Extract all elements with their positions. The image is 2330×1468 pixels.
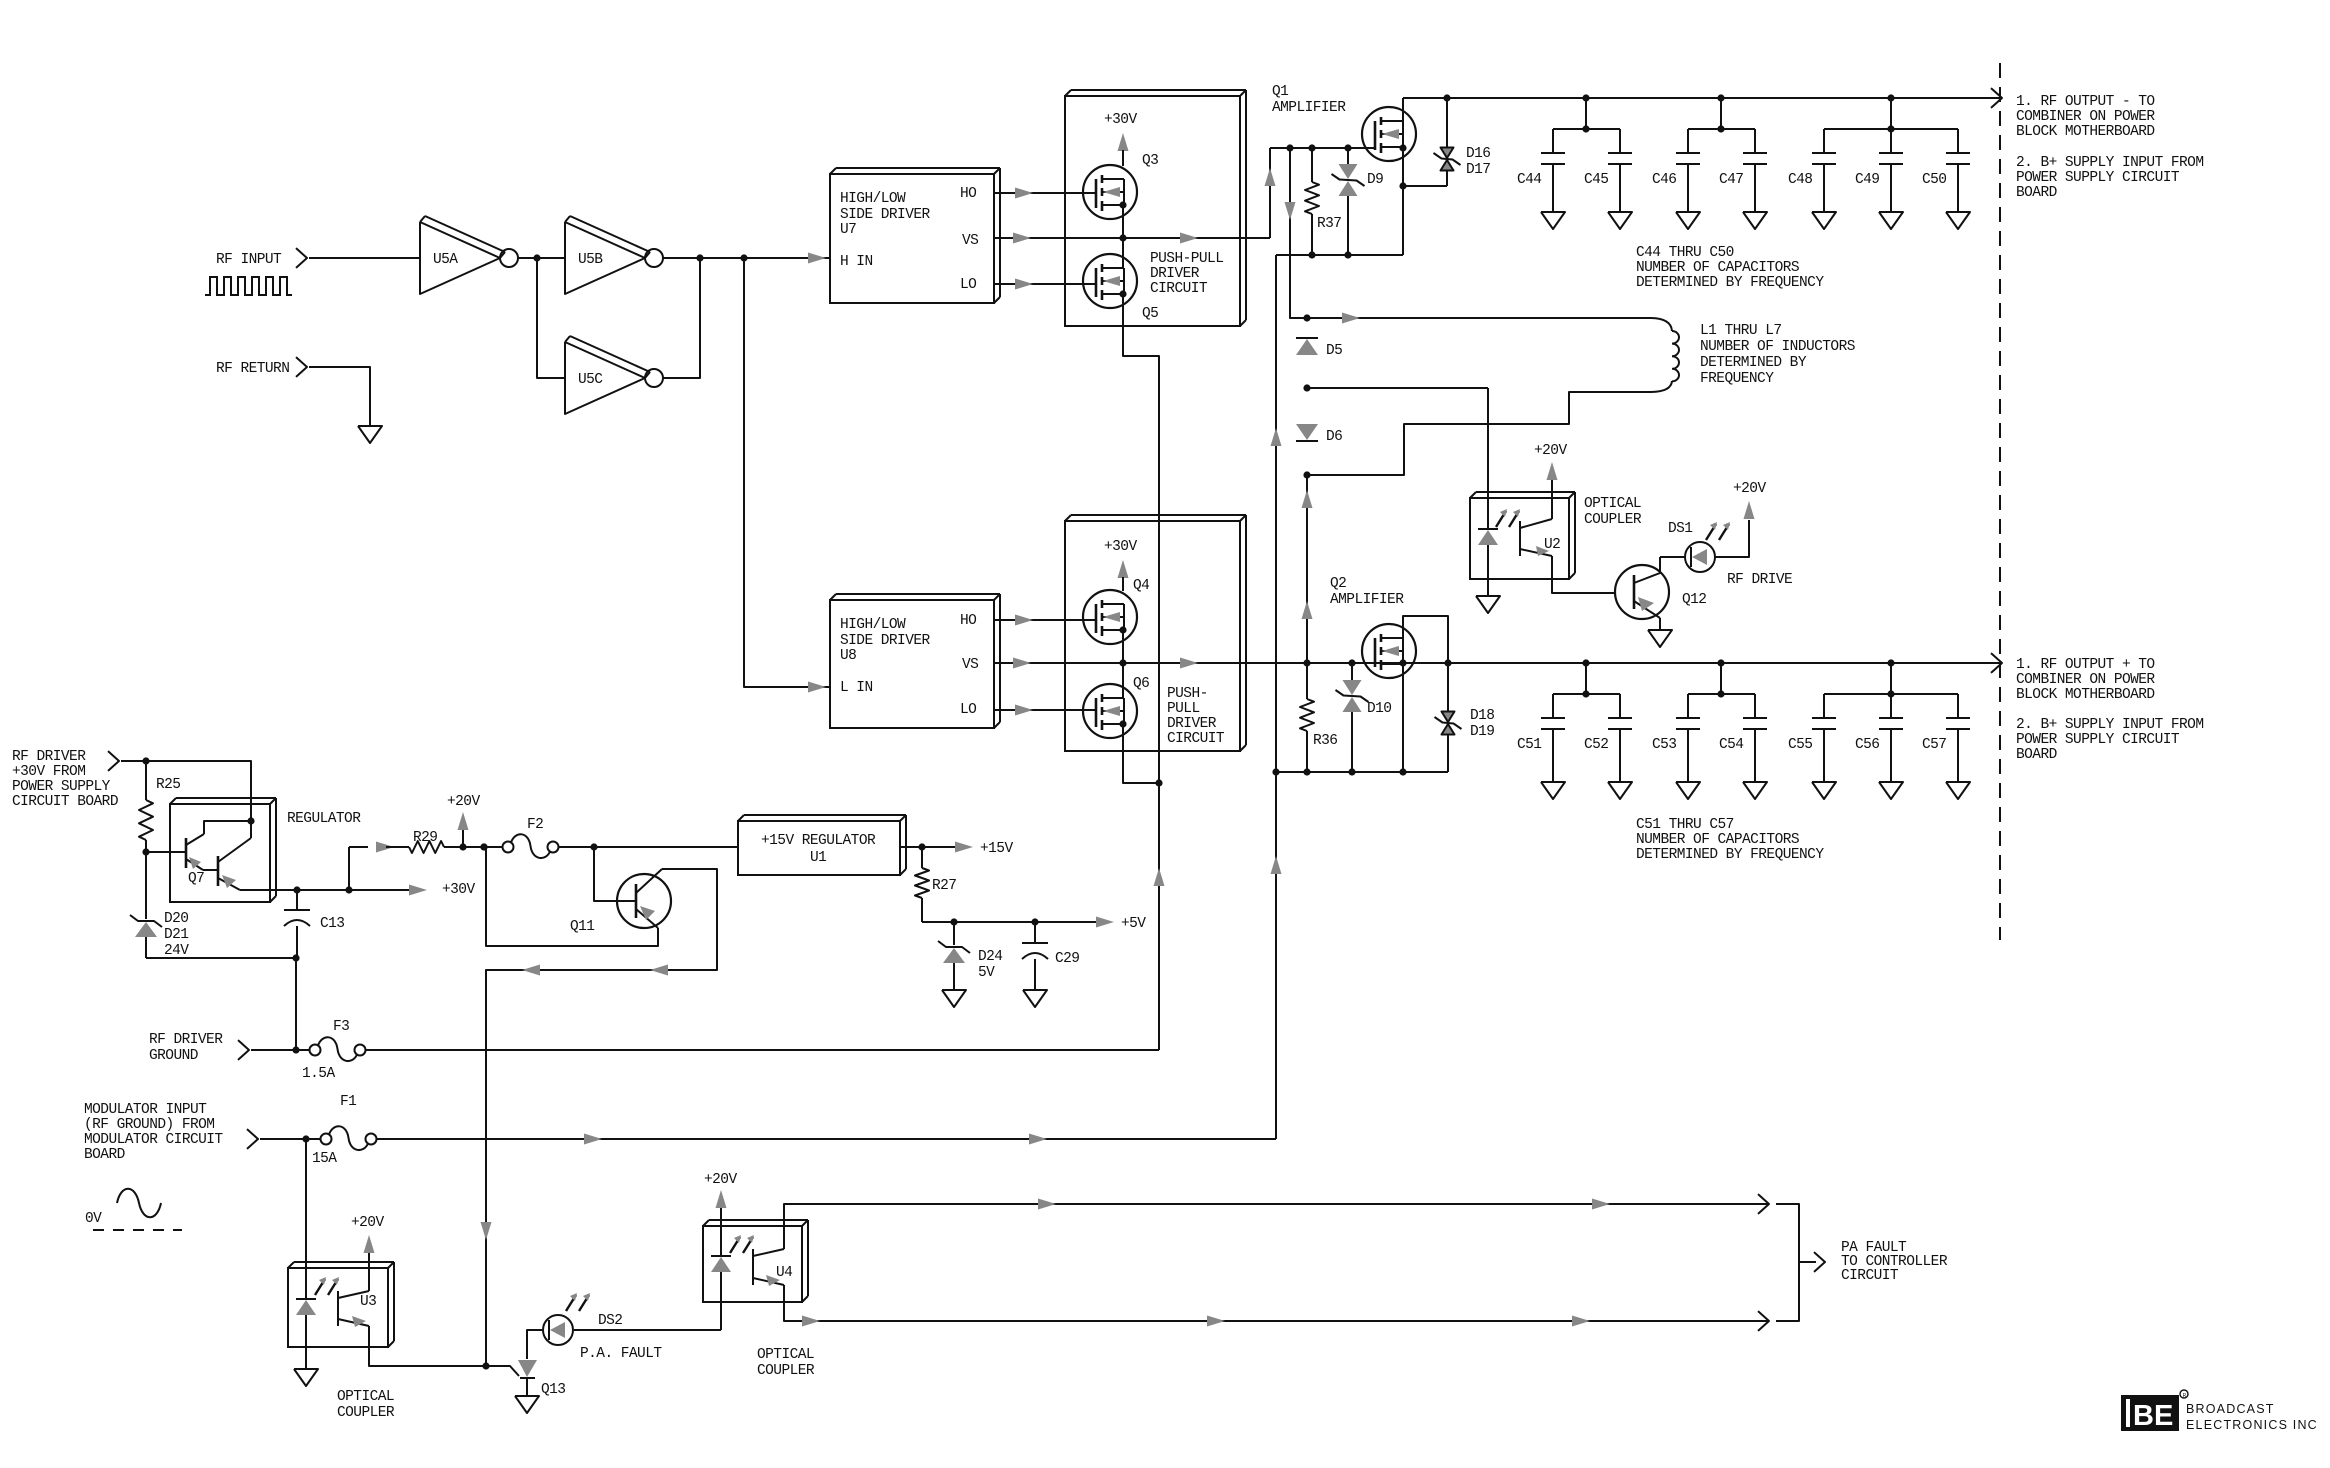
svg-text:H IN: H IN — [840, 254, 873, 270]
svg-text:D19: D19 — [1470, 724, 1494, 740]
svg-text:VS: VS — [962, 233, 978, 249]
wire — [251, 1049, 310, 1051]
svg-text:NUMBER OF CAPACITORS: NUMBER OF CAPACITORS — [1636, 260, 1799, 276]
wire Q11 collector loop — [486, 869, 717, 1366]
push-pull 2 text — [1167, 686, 1225, 747]
wire chain down — [1306, 475, 1308, 663]
R25 label — [156, 777, 180, 793]
Q1 label — [1272, 84, 1346, 116]
svg-text:AMPLIFIER: AMPLIFIER — [1272, 100, 1346, 116]
wire Q1 drain — [1402, 98, 1404, 121]
DS2 light rays — [566, 1293, 590, 1311]
svg-text:U7: U7 — [840, 222, 856, 238]
diode D5 — [1296, 338, 1318, 355]
wire DS1 +20V — [1715, 501, 1755, 557]
svg-text:1.5A: 1.5A — [302, 1066, 335, 1082]
U7 pin LO — [960, 277, 976, 293]
PA fault bracket — [1776, 1204, 1816, 1321]
node junction — [1031, 918, 1038, 925]
svg-text:REGULATOR: REGULATOR — [287, 811, 361, 827]
node junction — [142, 848, 149, 855]
svg-text:+5V: +5V — [1121, 916, 1146, 932]
R27 label — [932, 878, 956, 894]
svg-text:D18: D18 — [1470, 708, 1494, 724]
C57 label — [1922, 737, 1946, 753]
wire LO2 arrow — [1015, 705, 1033, 716]
PA FAULT note — [1841, 1240, 1948, 1284]
node junction — [480, 843, 487, 850]
svg-text:C50: C50 — [1922, 172, 1946, 188]
Q6 label — [1133, 676, 1149, 692]
bus output chevron — [1991, 88, 2002, 108]
D9 label — [1367, 172, 1383, 188]
C54 label — [1719, 737, 1743, 753]
U8 pin LO — [960, 702, 976, 718]
node RF INPUT label — [216, 252, 282, 268]
modulator connector — [247, 1129, 258, 1149]
svg-text:C55: C55 — [1788, 737, 1812, 753]
wire loop arrow — [481, 1222, 492, 1240]
wire F2 to U1 — [558, 846, 738, 848]
note B+ supply 2 — [2016, 717, 2203, 763]
svg-text:DRIVER: DRIVER — [1167, 716, 1217, 732]
C47 label — [1719, 172, 1743, 188]
svg-text:R: R — [2183, 1393, 2187, 1399]
node junction — [1344, 144, 1351, 151]
wire +20V arrow — [458, 812, 469, 847]
U8 pin VS — [962, 657, 978, 673]
REGULATOR label — [287, 811, 361, 827]
svg-text:MODULATOR CIRCUIT: MODULATOR CIRCUIT — [84, 1132, 223, 1148]
optocoupler U2 box — [1470, 492, 1575, 579]
svg-text:NUMBER OF INDUCTORS: NUMBER OF INDUCTORS — [1700, 339, 1855, 355]
svg-text:PULL: PULL — [1167, 701, 1200, 717]
bracket chevron — [1814, 1252, 1825, 1272]
svg-text:POWER SUPPLY: POWER SUPPLY — [12, 779, 111, 795]
capacitor C51 — [1541, 694, 1565, 799]
svg-text:RF DRIVE: RF DRIVE — [1727, 572, 1792, 588]
wire loop arrow — [522, 965, 540, 976]
U8 title — [840, 617, 931, 664]
net +20V label — [1534, 443, 1567, 459]
svg-text:1. RF OUTPUT - TO: 1. RF OUTPUT - TO — [2016, 94, 2155, 110]
node junction — [459, 843, 466, 850]
wire chain arrow — [1302, 601, 1313, 619]
node junction — [1399, 182, 1406, 189]
BE logo text — [2186, 1402, 2318, 1432]
transistor Q7 — [146, 821, 297, 890]
svg-text:RF DRIVER: RF DRIVER — [12, 749, 86, 765]
C45 label — [1584, 172, 1608, 188]
wire F3 to driver — [365, 1049, 1159, 1051]
wire fault arrow — [802, 1316, 820, 1327]
wire Q3 source — [1122, 205, 1124, 238]
svg-text:F2: F2 — [527, 817, 543, 833]
transistor Q5 — [1083, 254, 1137, 308]
U2 label — [1544, 537, 1560, 553]
wire bus2 arrow — [1180, 658, 1198, 669]
C29 label — [1055, 951, 1079, 967]
wire HO2 arrow — [1015, 615, 1033, 626]
wire VS arrow — [1013, 233, 1031, 244]
node junction — [480, 843, 487, 850]
fuse F1 — [321, 1126, 377, 1150]
wire Q1 source — [1402, 148, 1404, 186]
node junction — [696, 254, 703, 261]
wire H IN arrow — [808, 253, 826, 264]
node junction — [1717, 659, 1724, 697]
node junction — [1119, 290, 1126, 297]
DS1 label — [1668, 521, 1692, 537]
svg-text:+30V: +30V — [442, 882, 475, 898]
svg-text:R37: R37 — [1317, 216, 1341, 232]
wire VS arrow — [1180, 233, 1198, 244]
RF INPUT connector — [296, 248, 307, 268]
svg-text:SIDE DRIVER: SIDE DRIVER — [840, 207, 931, 223]
node junction — [1308, 144, 1315, 151]
U3 light rays — [315, 1277, 339, 1295]
node VS junction — [1119, 234, 1126, 241]
svg-text:Q11: Q11 — [570, 919, 594, 935]
wire Q5 source to ground line — [1123, 294, 1159, 1050]
svg-text:C45: C45 — [1584, 172, 1608, 188]
node junction — [1887, 659, 1894, 697]
U4 label — [776, 1265, 792, 1281]
net 0V label — [85, 1211, 102, 1227]
wire — [309, 257, 420, 259]
transistor Q6 — [1083, 684, 1137, 738]
svg-text:C13: C13 — [320, 916, 344, 932]
optocoupler U4 box — [703, 1220, 808, 1302]
svg-text:+30V FROM: +30V FROM — [12, 764, 85, 780]
transistor Q3 — [1083, 165, 1137, 219]
svg-text:BOARD: BOARD — [2016, 747, 2057, 763]
wire modulator arrow — [1029, 1134, 1047, 1145]
wire ground line arrow — [1154, 868, 1165, 886]
svg-text:5V: 5V — [978, 965, 995, 981]
Q12 label — [1682, 592, 1706, 608]
U2 ground — [1476, 593, 1500, 613]
regulator Q7 box — [170, 798, 276, 902]
svg-text:DRIVER: DRIVER — [1150, 266, 1200, 282]
wire sub-bus C51 C52 — [1553, 663, 1620, 694]
diode D24 — [938, 922, 970, 990]
node junction — [142, 757, 149, 764]
node junction — [292, 1046, 299, 1053]
svg-text:D5: D5 — [1326, 343, 1342, 359]
wire U5C input — [537, 258, 565, 378]
svg-text:BOARD: BOARD — [2016, 185, 2057, 201]
note RF driver +30V — [12, 749, 118, 810]
U3 coupler label — [337, 1389, 395, 1421]
svg-text:1. RF OUTPUT + TO: 1. RF OUTPUT + TO — [2016, 657, 2155, 673]
svg-text:OPTICAL: OPTICAL — [1584, 496, 1641, 512]
C44 label — [1517, 172, 1541, 188]
svg-text:U5A: U5A — [433, 252, 458, 268]
svg-text:C57: C57 — [1922, 737, 1946, 753]
note B+ supply — [2016, 155, 2203, 201]
svg-text:U3: U3 — [360, 1294, 376, 1310]
wire +5V arrow — [1096, 917, 1114, 928]
svg-text:U5C: U5C — [578, 372, 603, 388]
Q2 label — [1330, 576, 1404, 608]
dashed boundary — [1999, 63, 2001, 940]
svg-text:F3: F3 — [333, 1019, 349, 1035]
node junction — [1348, 768, 1355, 775]
svg-text:D6: D6 — [1326, 429, 1342, 445]
svg-text:+20V: +20V — [1534, 443, 1567, 459]
inductor note — [1700, 323, 1855, 387]
wire HO arrow — [1015, 188, 1033, 199]
svg-text:DETERMINED BY FREQUENCY: DETERMINED BY FREQUENCY — [1636, 847, 1824, 863]
D18 D19 labels — [1470, 708, 1494, 740]
svg-text:L1 THRU L7: L1 THRU L7 — [1700, 323, 1782, 339]
Q11 collector — [636, 869, 662, 893]
U4 +20V arrow — [716, 1190, 727, 1256]
svg-text:NUMBER OF CAPACITORS: NUMBER OF CAPACITORS — [1636, 832, 1799, 848]
node junction — [950, 918, 957, 925]
fuse F2 — [503, 834, 559, 858]
svg-text:C51: C51 — [1517, 737, 1541, 753]
svg-text:C54: C54 — [1719, 737, 1743, 753]
svg-text:2. B+ SUPPLY INPUT FROM: 2. B+ SUPPLY INPUT FROM — [2016, 717, 2203, 733]
svg-text:POWER SUPPLY CIRCUIT: POWER SUPPLY CIRCUIT — [2016, 732, 2180, 748]
wire feed arrow — [1285, 202, 1296, 220]
svg-text:U5B: U5B — [578, 252, 603, 268]
svg-text:AMPLIFIER: AMPLIFIER — [1330, 592, 1404, 608]
capacitor C49 — [1879, 129, 1903, 229]
svg-text:C47: C47 — [1719, 172, 1743, 188]
svg-text:R29: R29 — [413, 830, 437, 846]
wire — [121, 761, 251, 838]
wire B- bus 1 — [1276, 254, 1403, 256]
D24 ground — [942, 990, 966, 1007]
svg-text:COMBINER ON POWER: COMBINER ON POWER — [2016, 109, 2155, 125]
node junction — [1344, 251, 1351, 258]
wire L IN arrow — [808, 682, 826, 693]
node junction — [1286, 144, 1293, 151]
svg-text:GROUND: GROUND — [149, 1048, 198, 1064]
wire — [518, 257, 565, 259]
C50 label — [1922, 172, 1946, 188]
wire HO2 — [994, 619, 1095, 621]
push-pull driver box — [1065, 90, 1246, 326]
Q13 label — [541, 1382, 565, 1398]
svg-text:Q7: Q7 — [188, 871, 204, 887]
U7 title — [840, 191, 931, 238]
wire sub-bus C53 C54 — [1688, 663, 1755, 694]
capacitor C29 — [1022, 922, 1048, 990]
wire modulator return — [1275, 255, 1277, 1139]
svg-text:FREQUENCY: FREQUENCY — [1700, 371, 1774, 387]
wire B- bus 2 — [1276, 771, 1448, 773]
inverter U5C — [565, 336, 663, 414]
diode D9 — [1332, 148, 1365, 255]
svg-text:ELECTRONICS INC: ELECTRONICS INC — [2186, 1418, 2318, 1432]
optocoupler U3 box — [288, 1262, 394, 1347]
Q12 ground — [1648, 618, 1672, 647]
svg-text:+20V: +20V — [704, 1172, 737, 1188]
C13 label — [320, 916, 344, 932]
svg-text:Q5: Q5 — [1142, 306, 1158, 322]
svg-text:CIRCUIT: CIRCUIT — [1150, 281, 1208, 297]
svg-text:HIGH/LOW: HIGH/LOW — [840, 191, 906, 207]
U7 pin H IN — [840, 254, 873, 270]
F3 rating label — [302, 1066, 335, 1082]
diode D18 D19 — [1435, 663, 1462, 772]
svg-text:Q2: Q2 — [1330, 576, 1346, 592]
wire Q6 source — [1123, 724, 1158, 783]
fuse F3 — [310, 1037, 366, 1061]
wire LO arrow — [1015, 279, 1033, 290]
wire VS riser — [1269, 148, 1271, 238]
svg-text:RF DRIVER: RF DRIVER — [149, 1032, 223, 1048]
diode D20 D21 — [130, 852, 296, 958]
node junction — [247, 817, 254, 824]
wire LO2 — [994, 709, 1095, 711]
wire chain arrow — [1302, 490, 1313, 508]
wire sub-bus C48 C49 C50 — [1824, 98, 1958, 129]
cap bank 2 note — [1636, 817, 1824, 863]
U7 pin VS — [962, 233, 978, 249]
RF DRIVE label — [1727, 572, 1792, 588]
wire PA fault bottom — [784, 1285, 1769, 1321]
wire U2 emitter — [1552, 556, 1614, 593]
U4 LED — [711, 1256, 731, 1330]
C29 ground — [1023, 990, 1047, 1007]
wire D5 feed — [1290, 148, 1307, 318]
thyristor Q13 — [518, 1360, 537, 1378]
U3 LED ground — [294, 1347, 318, 1386]
node junction — [1887, 94, 1894, 132]
D20 labels — [164, 911, 189, 959]
wire return arrow — [1271, 428, 1282, 446]
C52 label — [1584, 737, 1608, 753]
svg-text:C29: C29 — [1055, 951, 1079, 967]
transistor Q11 — [617, 874, 671, 928]
svg-text:C52: C52 — [1584, 737, 1608, 753]
Q11 emitter — [636, 906, 658, 928]
node junction — [1303, 314, 1310, 321]
svg-text:PUSH-: PUSH- — [1167, 686, 1208, 702]
Q3 label — [1142, 153, 1158, 169]
U4 coupler label — [757, 1347, 815, 1379]
transistor Q12 — [1615, 565, 1669, 619]
wire — [663, 257, 830, 259]
wire — [309, 367, 370, 426]
push-pull driver box 2 — [1065, 515, 1246, 751]
wire to U2 LED — [1307, 387, 1488, 389]
svg-text:D21: D21 — [164, 927, 188, 943]
F1 label — [340, 1094, 356, 1110]
node junction — [292, 954, 299, 961]
note RF output + — [2016, 657, 2155, 703]
node junction — [740, 254, 747, 261]
Q12 collector — [1634, 557, 1660, 583]
wire U3 collector +20V — [364, 1235, 375, 1291]
F2 label — [527, 817, 543, 833]
wire U5C output — [663, 258, 700, 378]
node junction — [302, 1135, 309, 1142]
wire +30V rail — [297, 889, 409, 891]
wire sub-bus C46 C47 — [1688, 98, 1755, 129]
svg-text:C48: C48 — [1788, 172, 1812, 188]
U2 light rays — [1496, 509, 1520, 527]
wire riser arrow — [1265, 168, 1276, 186]
capacitor C53 — [1676, 694, 1700, 799]
D24 labels — [978, 949, 1002, 981]
capacitor C46 — [1676, 129, 1700, 229]
svg-text:LO: LO — [960, 277, 976, 293]
node junction — [1582, 94, 1589, 132]
node junction — [1303, 768, 1310, 775]
net +20V label — [447, 794, 480, 810]
svg-text:D17: D17 — [1466, 162, 1490, 178]
C55 label — [1788, 737, 1812, 753]
wire +15V arrow — [955, 842, 973, 853]
Q7 label — [188, 871, 204, 887]
svg-text:U2: U2 — [1544, 537, 1560, 553]
ground — [358, 426, 382, 443]
node junction — [590, 843, 597, 850]
RF RETURN connector — [296, 357, 307, 377]
U2 transistor — [1520, 519, 1552, 556]
wire loop arrow — [650, 965, 668, 976]
lamp DS2 — [543, 1315, 573, 1345]
optical coupler label — [1584, 496, 1642, 528]
transistor Q1 — [1362, 107, 1416, 161]
svg-text:HO: HO — [960, 613, 976, 629]
wire Q1 source down — [1402, 186, 1404, 255]
svg-text:+30V: +30V — [1104, 539, 1137, 555]
node junction — [1399, 768, 1406, 775]
F1 rating label — [312, 1151, 337, 1167]
square wave symbol — [205, 277, 292, 295]
net +20V label — [1733, 481, 1766, 497]
capacitor C56 — [1879, 694, 1903, 799]
wire U2 collector +20V — [1547, 462, 1558, 519]
driver U8 box — [830, 594, 1000, 728]
Q13 ground — [515, 1378, 539, 1413]
node junction — [1444, 659, 1451, 666]
svg-text:BLOCK MOTHERBOARD: BLOCK MOTHERBOARD — [2016, 124, 2155, 140]
capacitor C45 — [1608, 129, 1632, 229]
capacitor C13 — [284, 890, 310, 958]
net +30V label — [1104, 112, 1137, 128]
wire VS — [994, 237, 1270, 239]
svg-text:R36: R36 — [1313, 733, 1337, 749]
node junction — [1399, 659, 1406, 666]
svg-text:D16: D16 — [1466, 146, 1490, 162]
svg-text:15A: 15A — [312, 1151, 337, 1167]
RF driver ground connector — [238, 1040, 249, 1060]
svg-text:Q3: Q3 — [1142, 153, 1158, 169]
wire U1 out — [900, 846, 956, 848]
node junction — [1155, 779, 1162, 786]
resistor R36 — [1300, 663, 1314, 772]
wire fault arrow — [1592, 1199, 1610, 1210]
capacitor C55 — [1812, 694, 1836, 799]
wire +30V arrow — [409, 885, 427, 896]
svg-text:P.A. FAULT: P.A. FAULT — [580, 1346, 662, 1362]
wire rail riser — [349, 847, 368, 890]
wire PA fault top — [784, 1204, 1769, 1249]
svg-text:COUPLER: COUPLER — [337, 1405, 395, 1421]
svg-text:POWER SUPPLY CIRCUIT: POWER SUPPLY CIRCUIT — [2016, 170, 2180, 186]
Q12 emitter — [1634, 597, 1660, 618]
C53 label — [1652, 737, 1676, 753]
svg-text:0V: 0V — [85, 1211, 102, 1227]
